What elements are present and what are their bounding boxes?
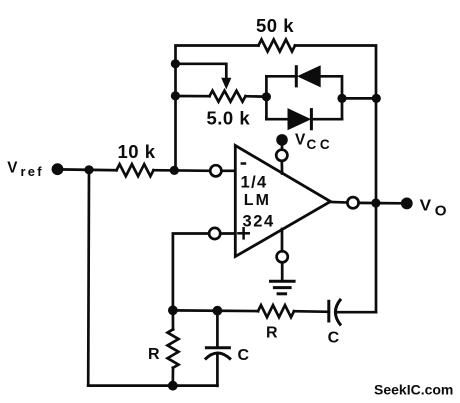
potentiometer RP 5.0 k [210,91,246,102]
svg-text:V: V [7,159,18,176]
wire diode loop upper branch [266,75,296,78]
node diode loop right [337,94,346,103]
node pot left terminal [171,91,180,100]
wire diode loop left vertical [265,76,268,119]
wire right rail [375,98,378,312]
svg-text:324: 324 [243,213,275,231]
ground [269,281,296,294]
wire op-amp output [331,201,348,204]
wire op-amp to ground pin [281,229,284,251]
pin output [347,197,358,208]
wire Vref to 10k [58,168,117,172]
resistor R2 10 k [117,164,154,176]
svg-text:C: C [328,330,340,347]
wire left rail down [87,170,91,386]
node diode loop left [262,92,271,101]
wire C to right rail [336,311,376,314]
wire diode loop lower branch [266,118,287,121]
wire after D1 [321,76,343,119]
wire R to C [294,310,329,313]
svg-text:50 k: 50 k [256,15,294,36]
node A [168,305,178,315]
resistor R (horizontal) [258,305,294,317]
wire left feedback column [174,64,177,171]
wire output to Vo [359,202,401,205]
node B [213,306,223,316]
diode D1 (pointing left) [296,65,320,87]
capacitor C (horizontal) [329,299,341,326]
wire plus input down to node A [173,234,209,311]
wire pot right lead [246,95,267,98]
op-amp U1 1/4 LM324 [235,146,330,257]
terminal Vo [401,198,413,210]
wire pot wiper arm [176,64,227,79]
svg-text:O: O [435,202,447,219]
node output junction [371,198,380,207]
wire VCC pin to op-amp [280,161,283,174]
wire bottom rail [88,384,217,387]
wire into op-amp minus pin [221,169,235,172]
resistor R1 50 k [259,40,296,52]
node bottom R [168,381,178,391]
diode D2 (pointing right) [288,108,312,130]
node inverting junction [170,166,179,175]
wire VCC stub [281,142,284,150]
svg-text:R: R [148,346,160,363]
wire top rail right of 50k [295,46,376,99]
node Vref junction [84,165,93,174]
node wiper tap [171,59,180,68]
pin non-inverting input terminal [209,228,220,239]
pin inverting input terminal [210,165,221,176]
svg-text:SeekIC.com: SeekIC.com [374,382,453,398]
wire top feedback rail [176,46,259,64]
pin VCC [276,150,287,161]
wire loop to right rail [342,97,376,100]
pin ground [277,251,288,262]
wire node A to node B [173,309,258,312]
svg-text:V: V [295,132,306,149]
wire 10k to inverting input [154,169,211,172]
terminal VCC [276,134,288,146]
svg-text:R: R [266,325,278,342]
svg-text:LM: LM [244,192,271,209]
label minus [241,162,247,165]
wire pot left lead [176,95,210,98]
svg-text:10 k: 10 k [118,141,156,162]
capacitor C (vertical) [205,311,231,386]
svg-text:ref: ref [21,164,44,179]
svg-text:1/4: 1/4 [241,174,268,192]
label plus [237,227,250,240]
wire after D2 [311,118,342,121]
terminal Vref [52,163,64,175]
node right rail upper [372,94,381,103]
svg-text:V: V [420,197,432,214]
wire ground pin lead [281,262,284,281]
svg-text:CC: CC [307,137,334,152]
resistor R (vertical) [168,310,179,386]
arrowhead of potentiometer wiper [221,78,231,90]
svg-text:5.0 k: 5.0 k [207,108,251,129]
svg-text:C: C [238,347,250,364]
wire into op-amp plus pin [220,232,235,235]
